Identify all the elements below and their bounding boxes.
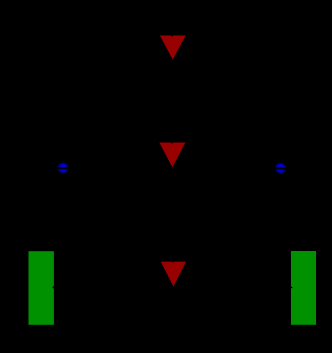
wire stub into D2 top [171, 137, 173, 143]
wire stub into D3 top [172, 256, 174, 262]
wire stub into D1 top [171, 30, 173, 36]
diode D2 (middle, red triangle) [159, 143, 185, 168]
wire mid rail through node B [260, 167, 303, 169]
wire right branch vertical [302, 30, 304, 252]
arrowhead into resistor R2 (left edge) [290, 286, 293, 289]
diode D3 (bottom, red triangle) [161, 262, 186, 287]
wire left branch vertical [40, 30, 42, 252]
wire center vertical (through diode chain) [172, 30, 174, 262]
wire top rail [41, 30, 304, 32]
resistor R1 (left, green body) [29, 251, 54, 325]
arrowhead into resistor R1 (right edge) [52, 285, 55, 289]
node A (left junction dot, blue) [58, 163, 68, 173]
wire mid rail through node A [42, 167, 84, 169]
node B (right junction dot, blue) [276, 163, 286, 173]
resistor R2 (right, green body) [291, 251, 316, 325]
diode D1 (top, red triangle) [160, 36, 186, 60]
